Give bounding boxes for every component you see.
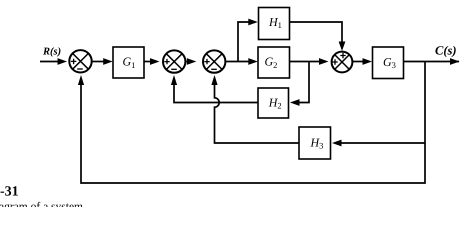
svg-text:C(s): C(s) [435,44,457,58]
svg-text:agram of a system.: agram of a system. [0,201,86,207]
svg-text:R(s): R(s) [42,47,61,58]
svg-text:-31: -31 [0,185,19,200]
